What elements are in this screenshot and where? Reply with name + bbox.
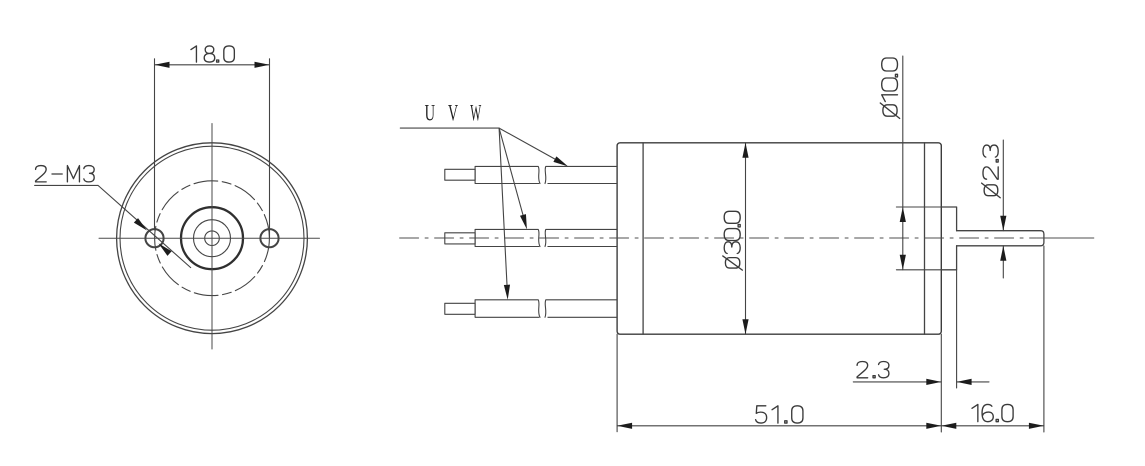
lead V (middle) wire segment 1 with break [475, 229, 540, 246]
dimension o10.0 arrowheads [900, 207, 906, 270]
dimension 18.0 line [155, 64, 270, 66]
label 2-M3 leader underline [35, 184, 98, 186]
mounting hole left (M3) [145, 229, 163, 247]
dimension text o10.0 (rotated) [880, 58, 899, 118]
dimension o2.3 upper line [1002, 140, 1004, 231]
side view rear cap line [924, 143, 926, 334]
front view vertical centerline [211, 124, 213, 350]
leader line to lead V [499, 128, 523, 215]
front view bolt circle (dashed) [155, 181, 270, 296]
dimension text 16.0 [972, 404, 1013, 421]
lead W (bottom) wire segment 1 with break [475, 300, 540, 318]
dimension o10.0 line [902, 56, 904, 270]
side view front cap line [642, 143, 644, 334]
leader line to lead W [499, 128, 555, 159]
dimension text 51.0 [756, 406, 803, 423]
front view boss circle (thick, o10) [181, 207, 243, 269]
front view horizontal centerline [99, 237, 320, 239]
extension line boss right edge down [956, 270, 958, 388]
dimension o30.0 arrowheads [742, 143, 748, 334]
front view shaft circle (o2.3) [205, 231, 220, 246]
side view rear boss rectangle (o10 x 2.3) [941, 207, 956, 270]
label 2-M3 leader arrowhead 2 [156, 241, 171, 256]
lead U (top) pin rectangle [445, 169, 475, 180]
dimension o2.3 lower line [1002, 246, 1004, 278]
dimension 2.3 arrowheads [926, 379, 971, 385]
label 2-M3 leader line to hole [98, 185, 191, 267]
dimension 2.3 tail line with right arrow [957, 381, 989, 383]
dimension 51.0 arrowheads [617, 423, 941, 429]
front view middle circle [194, 220, 231, 257]
lead W (bottom) pin rectangle [445, 303, 475, 314]
dimension text 2.3 [857, 362, 889, 378]
side view shaft rectangle (o2.3 x 16) [957, 231, 1044, 246]
leader arrowhead V [520, 214, 530, 230]
lead V (middle) pin rectangle [445, 233, 475, 244]
dimension o10.0 extension lines (boss edges) [896, 207, 941, 270]
label 2-M3 text [36, 166, 95, 182]
mounting hole right (M3) [260, 229, 278, 247]
side view motor body rectangle [617, 143, 941, 334]
dimension text o30.0 (rotated) [723, 211, 743, 270]
svg-text:U: U [425, 101, 435, 126]
front view outer circle (motor can od 30) [117, 143, 308, 334]
dimension text 18.0 [191, 46, 234, 62]
extension line body left edge down [616, 334, 618, 432]
extension line body right edge down [940, 334, 942, 432]
dimension 51.0 and 16.0 shared line [617, 425, 1044, 427]
lead U (top) wire segment 2 to body [545, 166, 617, 183]
leader arrowhead U [504, 285, 511, 300]
dimension text o2.3 (rotated) [982, 145, 1001, 198]
lead U (top) wire segment 1 with break [475, 166, 540, 183]
dimension 16.0 arrowheads [941, 423, 1044, 429]
dimension 18.0 arrowheads [155, 62, 270, 68]
leader line to lead U [499, 128, 507, 285]
dimension o2.3 arrowheads [1000, 216, 1006, 261]
svg-text:V: V [448, 101, 458, 126]
dimension o30.0 line [745, 143, 747, 334]
leader arrowhead W [553, 156, 569, 169]
label U V W leader underline [400, 127, 499, 129]
label 2-M3 leader arrowhead 1 [134, 218, 149, 233]
dimension 2.3 line with left arrow [853, 381, 941, 383]
label U V W text [425, 100, 482, 126]
extension line shaft end down [1043, 246, 1045, 432]
lead W (bottom) wire segment 2 to body [545, 300, 617, 318]
dimension 18.0 extension lines [155, 59, 270, 238]
lead V (middle) wire segment 2 to body [545, 229, 617, 246]
svg-text:W: W [470, 100, 481, 125]
side view horizontal centerline (dash-dot) [400, 237, 1036, 239]
